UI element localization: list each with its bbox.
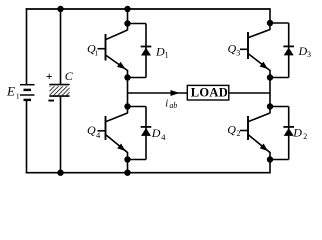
wire diode top branch Q4 (128, 106, 147, 108)
label D3 (298, 44, 312, 59)
wire emitter stub Q2 (269, 152, 271, 160)
diode D1 (141, 47, 152, 56)
svg-text:E: E (6, 83, 15, 98)
wire capacitor top lead (60, 9, 62, 85)
node collector Q2 (267, 103, 273, 109)
label Q4 (87, 123, 101, 140)
label i_ab (165, 98, 177, 110)
wire diode bottom branch Q2 (288, 127, 290, 160)
capacitor C (49, 85, 69, 97)
wire diode top branch Q2 (270, 106, 289, 108)
svg-text:1: 1 (165, 51, 169, 60)
transistor Q4 (98, 113, 128, 153)
diode D4 (141, 127, 152, 136)
wire emitter stub Q4 (127, 152, 129, 160)
label − minus (48, 100, 54, 102)
battery E1 (20, 85, 35, 100)
svg-text:C: C (65, 69, 74, 83)
diode D2 (283, 127, 294, 136)
wire diode top branch Q3 (270, 22, 289, 24)
svg-text:D: D (298, 44, 308, 58)
wire left rail upper segment (26, 8, 28, 84)
wire diode bottom branch Q4 (145, 127, 147, 160)
svg-text:D: D (292, 125, 302, 139)
wire right leg middle (269, 78, 271, 107)
node collector Q1 (124, 20, 130, 26)
arrow current direction (171, 90, 180, 96)
svg-text:2: 2 (237, 129, 241, 138)
wire bottom DC bus (26, 172, 270, 174)
node emitter Q3 (267, 74, 273, 80)
svg-text:3: 3 (307, 50, 311, 59)
svg-text:3: 3 (236, 48, 240, 57)
transistor Q1 (98, 30, 128, 71)
svg-text:1: 1 (16, 91, 20, 100)
label Q2 (227, 122, 240, 138)
load box U1 (187, 85, 229, 100)
node emitter Q1 (124, 74, 130, 80)
svg-text:2: 2 (303, 132, 307, 141)
wire left leg middle (127, 78, 129, 107)
svg-text:1: 1 (94, 48, 98, 57)
wire diode top branch Q1 (128, 23, 147, 25)
label D4 (151, 126, 167, 142)
label Q3 (228, 41, 241, 57)
svg-text:+: + (46, 69, 53, 83)
svg-text:LOAD: LOAD (191, 86, 228, 100)
wire collector stub Q3 (269, 23, 271, 30)
label D2 (292, 125, 307, 141)
svg-text:Q: Q (227, 122, 236, 136)
svg-text:ab: ab (169, 101, 177, 110)
wire left rail lower segment (26, 100, 28, 174)
svg-text:D: D (155, 44, 165, 58)
wire right leg bottom (269, 160, 271, 174)
node left leg top bus (124, 6, 130, 12)
node capacitor bottom (57, 170, 63, 176)
svg-text:D: D (151, 126, 161, 140)
wire left leg bottom (127, 160, 129, 174)
wire emitter stub Q3 (269, 70, 271, 78)
wire diode bottom branch Q1 (145, 47, 147, 78)
label E1 (6, 83, 20, 100)
diode D3 (283, 46, 294, 55)
transistor Q3 (240, 30, 270, 71)
svg-text:Q: Q (87, 123, 96, 137)
node left leg bottom bus (124, 170, 130, 176)
label Q1 (87, 42, 98, 58)
node capacitor top (57, 6, 63, 12)
label D1 (155, 44, 169, 59)
transistor Q2 (240, 113, 270, 153)
svg-text:i: i (165, 98, 168, 109)
wire left leg top (127, 9, 129, 24)
wire emitter stub Q1 (127, 70, 129, 78)
wire top DC bus (26, 8, 270, 10)
wire capacitor bottom lead (60, 96, 62, 173)
node collector Q4 (124, 103, 130, 109)
wire collector stub Q2 (269, 107, 271, 114)
wire output right (node b) (229, 92, 270, 94)
node emitter Q4 (124, 156, 130, 162)
svg-text:4: 4 (161, 132, 166, 142)
wire output left (node a) (128, 92, 188, 94)
wire right leg top (269, 8, 271, 23)
wire collector stub Q1 (127, 24, 129, 31)
node collector Q3 (267, 20, 273, 26)
wire collector stub Q4 (127, 107, 129, 114)
svg-text:Q: Q (228, 41, 237, 55)
wire diode bottom branch Q3 (288, 46, 290, 77)
node emitter Q2 (267, 156, 273, 162)
